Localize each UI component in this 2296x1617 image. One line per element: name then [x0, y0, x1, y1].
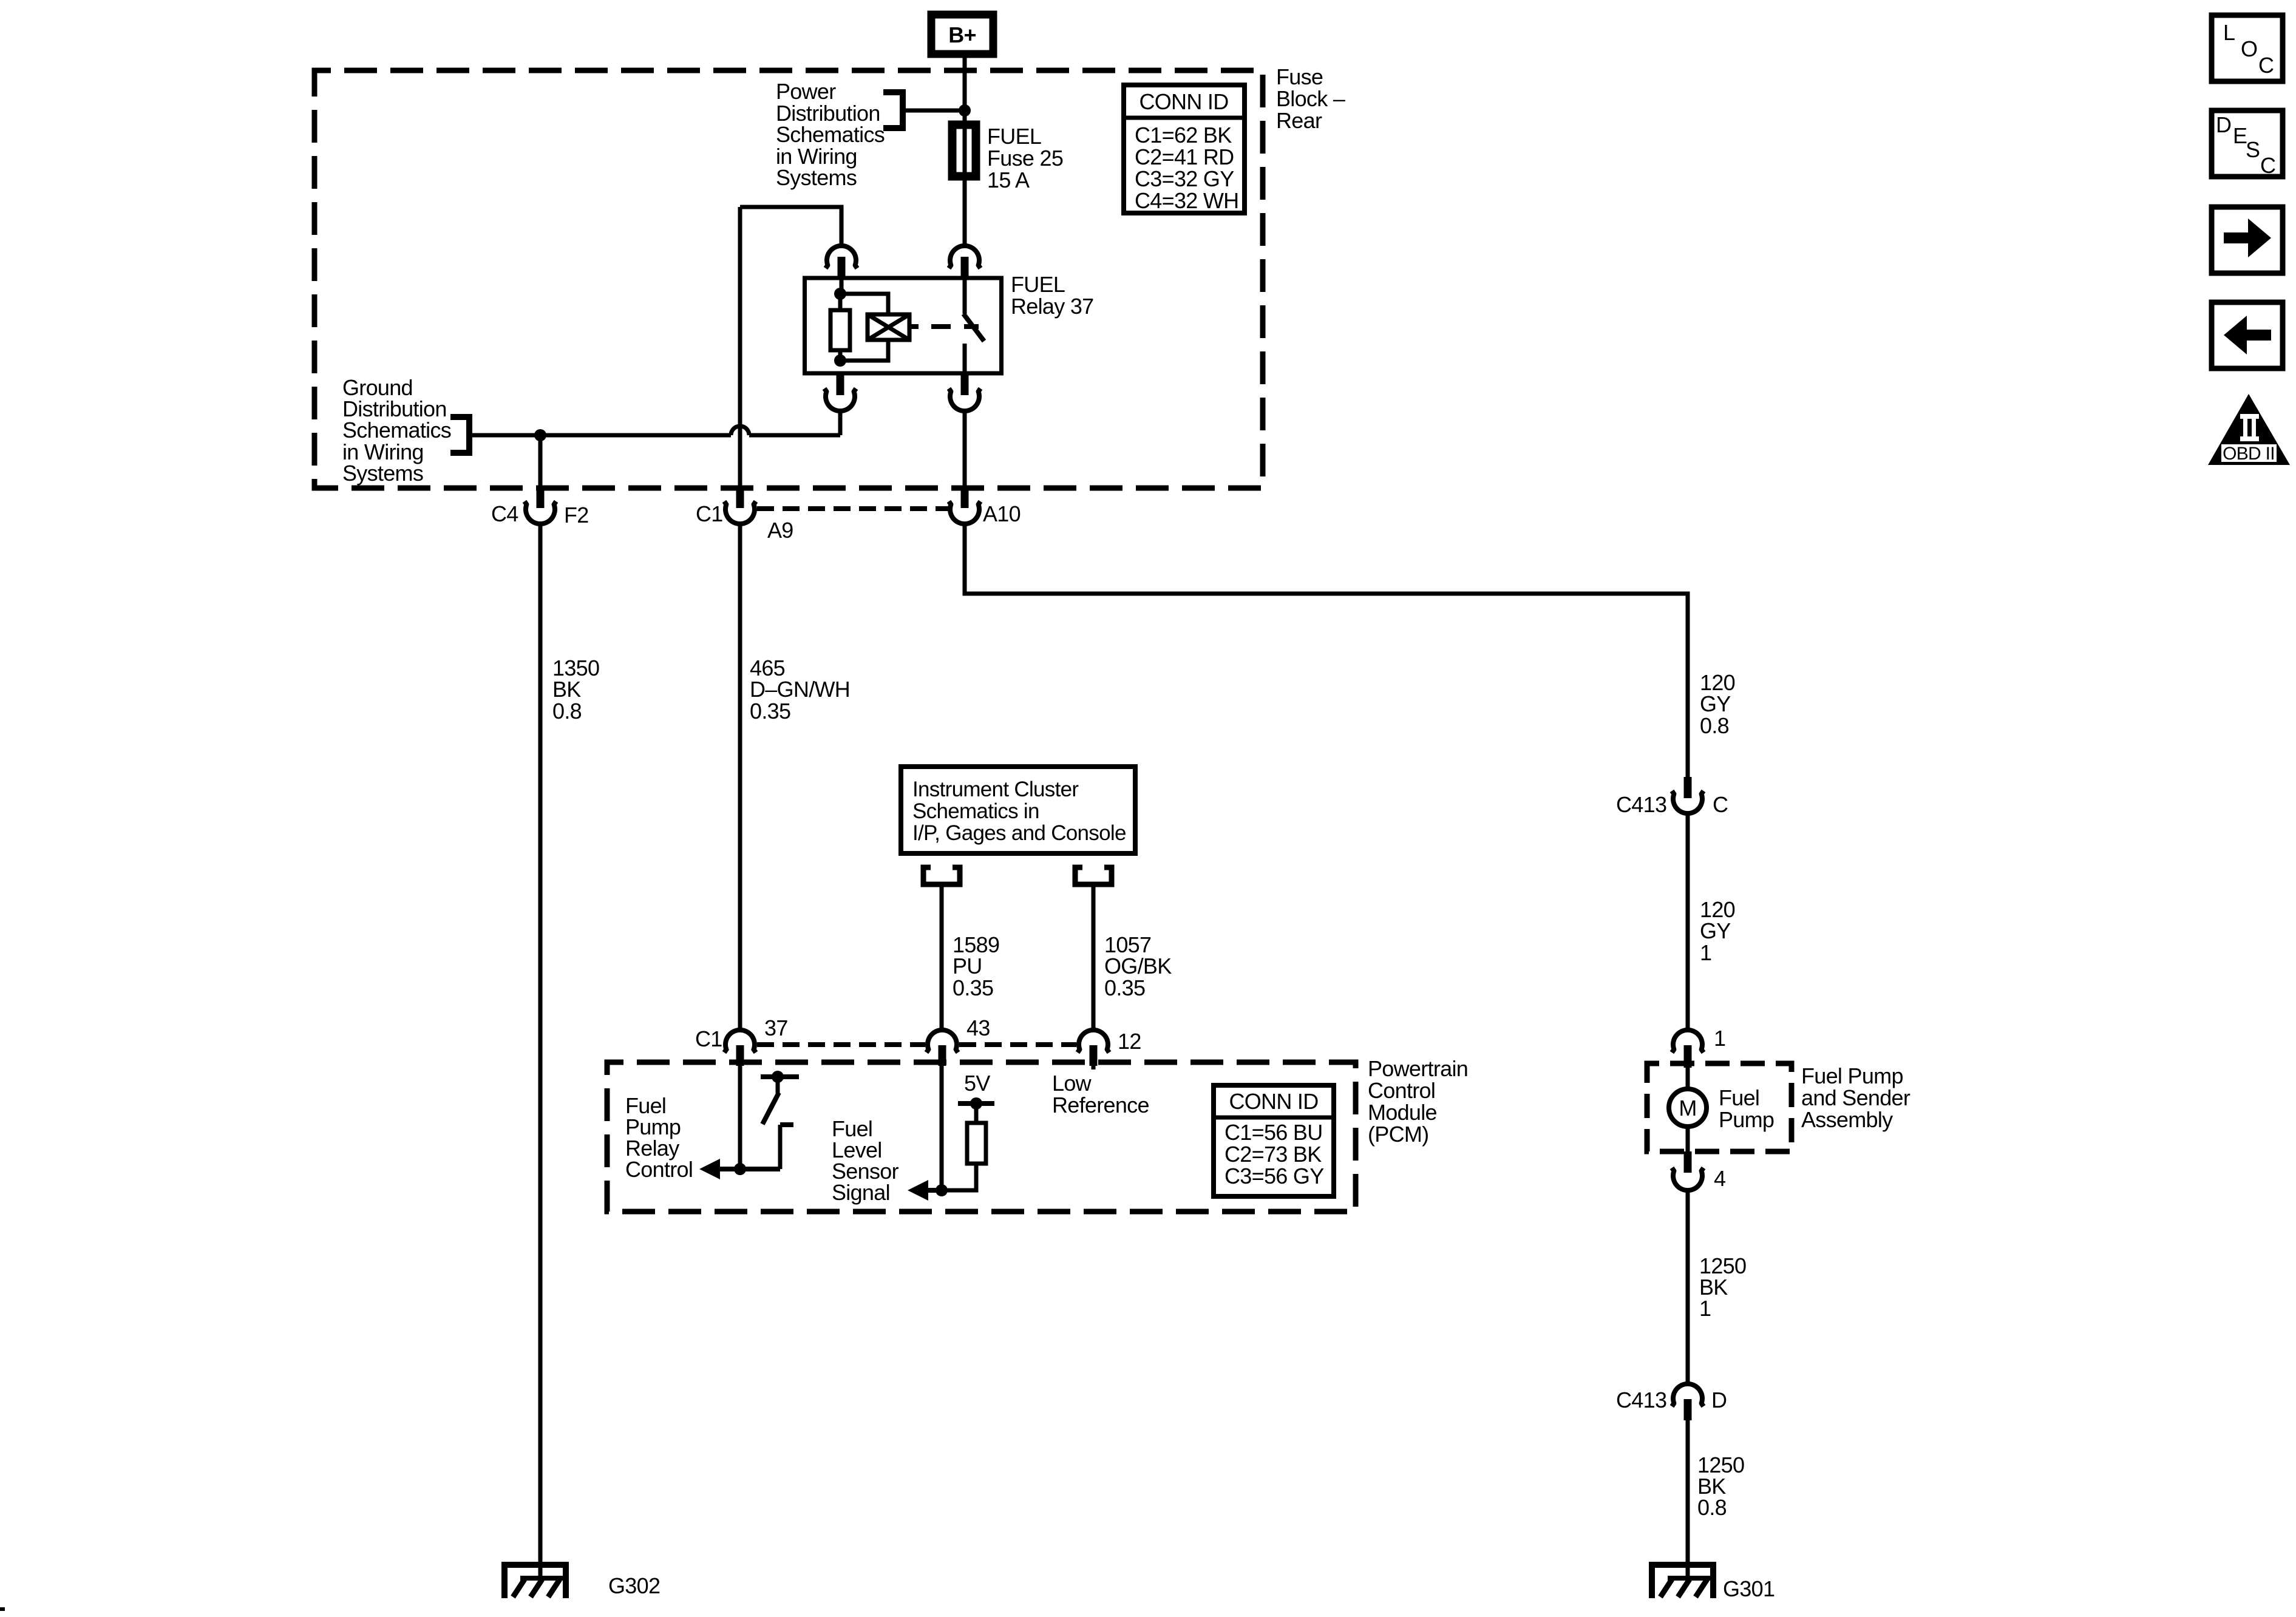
svg-text:Signal: Signal	[832, 1180, 890, 1205]
svg-text:C: C	[1713, 792, 1728, 817]
svg-text:Control: Control	[1368, 1078, 1435, 1103]
svg-text:43: 43	[966, 1015, 990, 1040]
pin stub pump 1	[1684, 1045, 1692, 1068]
svg-text:Schematics: Schematics	[342, 418, 451, 442]
svg-text:Schematics: Schematics	[776, 122, 885, 147]
relay coil (box with X)	[868, 314, 909, 340]
svg-text:GY: GY	[1700, 918, 1731, 943]
junction node pin 43 output	[936, 1184, 948, 1196]
fuel pump motor M	[1669, 1089, 1707, 1127]
wire relay 85 down	[838, 410, 843, 435]
wire label 120 GY 1	[1700, 897, 1735, 965]
svg-text:(PCM): (PCM)	[1368, 1122, 1428, 1147]
svg-text:G301: G301	[1723, 1576, 1775, 1601]
wire 465 drop	[738, 207, 742, 487]
pin stub PCM 37	[736, 1045, 744, 1066]
svg-text:Pump: Pump	[1719, 1107, 1774, 1132]
svg-text:OG/BK: OG/BK	[1104, 954, 1172, 978]
svg-text:0.35: 0.35	[953, 975, 993, 1000]
junction node at B+ feed	[959, 104, 971, 117]
label FUEL Relay 37	[1011, 272, 1093, 319]
svg-text:Assembly: Assembly	[1801, 1107, 1893, 1132]
label Fuel Pump and Sender Assembly	[1801, 1063, 1911, 1132]
wire bracket to B+ feed	[903, 109, 965, 113]
connector hook instrument cluster right	[1075, 867, 1112, 884]
wire 1057 OG/BK drop	[1092, 884, 1096, 1031]
icon left arrow box	[2212, 302, 2283, 368]
svg-text:B+: B+	[948, 22, 976, 47]
resistor in relay	[830, 310, 850, 350]
wire label 120 GY 0.8	[1700, 670, 1735, 738]
svg-text:Rear: Rear	[1276, 108, 1322, 133]
svg-text:Low: Low	[1052, 1071, 1092, 1096]
connector cap C413 D	[1672, 1384, 1703, 1406]
fuel pump and sender dashed box	[1647, 1063, 1792, 1151]
driver switch lower tick	[780, 1122, 793, 1127]
svg-text:BK: BK	[552, 677, 581, 702]
svg-text:15 A: 15 A	[987, 168, 1030, 192]
junction node ground wire	[534, 429, 546, 441]
driver switch lower lead	[778, 1125, 783, 1169]
svg-text:CONN ID: CONN ID	[1139, 89, 1228, 114]
svg-text:Powertrain: Powertrain	[1368, 1056, 1468, 1081]
callout Ground Distribution Schematics in Wiring Systems	[342, 375, 451, 486]
wire fuse to relay pin 30	[963, 178, 967, 245]
icon DESC box	[2212, 110, 2283, 178]
svg-text:C413: C413	[1616, 1388, 1666, 1412]
wire label 1250 BK 0.8	[1697, 1453, 1744, 1520]
wire 1250 BK 1	[1686, 1190, 1690, 1385]
svg-text:CONN ID: CONN ID	[1229, 1089, 1318, 1114]
junction node driver bar	[772, 1071, 784, 1083]
relay switch lower lead pin 87	[963, 344, 967, 373]
wire 1589 PU drop	[940, 884, 944, 1031]
connector cap PCM pin 43	[926, 1030, 958, 1053]
pin stub pump 4	[1684, 1151, 1692, 1173]
junction node relay bottom	[834, 354, 846, 367]
wire B+ to fuse	[963, 58, 967, 123]
wire A10 drop	[963, 410, 967, 487]
svg-text:Fuel: Fuel	[1719, 1085, 1759, 1110]
svg-text:and Sender: and Sender	[1801, 1085, 1911, 1110]
bracket for power distribution callout	[883, 92, 903, 128]
ground G302	[504, 1565, 568, 1598]
svg-text:C: C	[2258, 53, 2274, 78]
actuator dashed link	[931, 324, 951, 329]
svg-text:I/P, Gages and Console: I/P, Gages and Console	[912, 821, 1126, 845]
wire PCM pin 43 internal	[940, 1066, 944, 1190]
wire 5V to resistor	[974, 1103, 979, 1123]
svg-text:C3=56 GY: C3=56 GY	[1224, 1164, 1324, 1188]
svg-text:Block –: Block –	[1276, 86, 1345, 111]
svg-text:Systems: Systems	[342, 461, 423, 486]
connector cup pump pin 4	[1672, 1168, 1703, 1190]
icon LOC box	[2212, 15, 2283, 81]
wire pin 86 top link	[740, 207, 841, 245]
wire ground bracket to junction	[469, 433, 731, 438]
svg-text:Instrument Cluster: Instrument Cluster	[912, 778, 1079, 801]
label FUEL Fuse 25 15 A	[987, 124, 1063, 192]
wire 120 GY 1	[1686, 813, 1690, 1031]
connector cap PCM pin 12	[1078, 1030, 1109, 1053]
pin stub PCM 12	[1090, 1045, 1098, 1066]
label Powertrain Control Module (PCM)	[1368, 1056, 1468, 1147]
wire link to relay coil	[840, 294, 888, 314]
svg-text:PU: PU	[953, 954, 982, 978]
svg-text:C1: C1	[696, 501, 723, 526]
connector boundary dashed line pins 43-12	[959, 1042, 1076, 1047]
svg-text:C3=32 GY: C3=32 GY	[1135, 166, 1234, 191]
svg-text:37: 37	[764, 1015, 788, 1040]
svg-text:Fuse 25: Fuse 25	[987, 146, 1063, 171]
connector hook instrument cluster left	[923, 867, 960, 884]
pin stub C413 C	[1684, 777, 1692, 798]
resistor pull-up in PCM	[967, 1123, 986, 1164]
svg-text:C: C	[2260, 153, 2275, 178]
pin stub relay 30	[961, 257, 969, 279]
svg-text:0.8: 0.8	[1700, 713, 1729, 738]
connector boundary dashed line A9 to A10	[757, 506, 949, 511]
svg-text:Power: Power	[776, 79, 836, 104]
svg-text:Fuse: Fuse	[1276, 64, 1323, 89]
svg-text:Reference: Reference	[1052, 1093, 1149, 1117]
connector cap PCM pin 37	[724, 1030, 756, 1053]
svg-text:D: D	[2216, 112, 2231, 137]
svg-text:F2: F2	[564, 503, 589, 527]
relay FUEL Relay 37 box	[805, 278, 1002, 373]
wire 1250 BK 0.8	[1686, 1420, 1690, 1565]
connector cup A10	[949, 501, 980, 524]
wire hop to relay pin 85	[749, 433, 840, 438]
svg-text:0.8: 0.8	[1697, 1495, 1727, 1520]
svg-text:D: D	[1711, 1388, 1727, 1412]
PCM dashed box	[607, 1062, 1356, 1212]
wire label 1250 BK 1	[1699, 1253, 1746, 1321]
svg-text:A10: A10	[983, 501, 1021, 526]
wire pump feed inside box	[1686, 1068, 1690, 1087]
svg-text:C1=62 BK: C1=62 BK	[1135, 123, 1232, 147]
label Instrument Cluster Schematics	[912, 778, 1126, 845]
wire resistor to signal line	[942, 1164, 976, 1190]
wire relay control output	[716, 1167, 780, 1171]
wire coil bottom link	[840, 340, 888, 361]
svg-text:Schematics in: Schematics in	[912, 799, 1039, 823]
svg-text:12: 12	[1118, 1029, 1141, 1054]
svg-text:O: O	[2241, 36, 2257, 61]
pin stub relay 86	[838, 257, 846, 279]
conn id table PCM	[1214, 1085, 1334, 1196]
svg-text:Relay 37: Relay 37	[1011, 294, 1093, 319]
wire 1350 BK down to G302	[538, 523, 543, 1565]
connector cap relay pin 86	[826, 246, 857, 268]
ground G301	[1652, 1565, 1715, 1598]
svg-text:M: M	[1679, 1096, 1696, 1120]
svg-text:Systems: Systems	[776, 165, 857, 190]
label Fuse Block - Rear	[1276, 64, 1345, 133]
svg-text:C4=32 WH: C4=32 WH	[1135, 188, 1238, 213]
pin stub C413 D	[1684, 1399, 1692, 1420]
pin stub C1 A9	[736, 486, 744, 508]
junction node 5V	[970, 1097, 982, 1110]
junction node pin 37 output	[734, 1163, 746, 1175]
driver switch upper stub	[776, 1077, 780, 1093]
svg-text:G302: G302	[608, 1573, 660, 1598]
wire PCM pin 37 internal	[738, 1066, 742, 1169]
arrow relay control	[699, 1159, 720, 1179]
svg-text:Fuel Pump: Fuel Pump	[1801, 1063, 1903, 1088]
svg-text:GY: GY	[1700, 691, 1731, 716]
label Low Reference	[1052, 1071, 1149, 1117]
svg-text:1: 1	[1700, 940, 1711, 965]
connector cup C4 F2	[525, 501, 556, 524]
svg-text:E: E	[2233, 123, 2247, 148]
connector cap relay pin 30	[949, 246, 980, 268]
svg-text:OBD II: OBD II	[2223, 444, 2275, 464]
svg-text:D–GN/WH: D–GN/WH	[750, 677, 850, 702]
arrow level sensor signal	[908, 1180, 928, 1201]
icon right arrow box	[2212, 207, 2283, 273]
relay switch pin 30 lead	[963, 278, 967, 314]
svg-text:Control: Control	[625, 1157, 693, 1182]
svg-text:C1: C1	[695, 1026, 722, 1051]
svg-text:Module: Module	[1368, 1100, 1437, 1125]
connector cup relay pin 85	[824, 388, 856, 411]
wire label 1057 OG/BK 0.35	[1104, 932, 1172, 1000]
svg-text:4: 4	[1714, 1166, 1725, 1191]
svg-text:1: 1	[1714, 1026, 1725, 1051]
wire label 1589 PU 0.35	[953, 932, 999, 1000]
connector cup C413 C	[1672, 791, 1703, 813]
B+ battery terminal	[931, 15, 993, 54]
wire PCM pin 12 internal	[1092, 1066, 1096, 1070]
driver switch fixed bar	[761, 1074, 799, 1079]
icon OBD II triangle	[2208, 394, 2290, 465]
wire label 465 D-GN/WH 0.35	[750, 656, 850, 724]
driver switch blade	[763, 1093, 779, 1124]
label Fuel Pump Relay Control	[625, 1093, 693, 1182]
wire resistor bottom	[838, 350, 843, 361]
wire C4 drop	[538, 435, 543, 487]
coil actuator stub	[909, 324, 919, 329]
relay switch blade	[963, 314, 984, 341]
wire 465 down to PCM pin 37	[738, 523, 742, 1031]
connector cup C1 A9	[724, 501, 756, 524]
junction node relay top	[834, 288, 846, 300]
relay coil feed wire pin 86	[840, 278, 844, 294]
svg-text:1: 1	[1699, 1296, 1711, 1321]
connector boundary dashed line pins 37-43	[757, 1042, 925, 1047]
svg-text:C413: C413	[1616, 792, 1666, 817]
svg-text:FUEL: FUEL	[1011, 272, 1065, 297]
wire hop over 465 wire	[731, 426, 749, 435]
bracket for ground distribution callout	[450, 417, 469, 453]
svg-text:C2=41 RD: C2=41 RD	[1135, 144, 1234, 169]
svg-text:A9: A9	[767, 518, 793, 543]
fuse block dashed box	[314, 70, 1263, 488]
conn id table fuse block	[1124, 85, 1245, 213]
wire A10 to fuel pump feed	[965, 523, 1688, 777]
fuse FUEL Fuse 25 15A	[950, 123, 978, 178]
label Fuel Pump inside box	[1719, 1085, 1774, 1132]
connector cap fuel pump pin 1	[1672, 1030, 1703, 1053]
svg-text:C4: C4	[491, 501, 518, 526]
pin stub A10	[961, 486, 969, 508]
connector cup relay pin 87	[949, 388, 980, 411]
wire level sensor signal	[924, 1188, 942, 1193]
wire label 1350 BK 0.8	[552, 656, 599, 724]
svg-text:5V: 5V	[964, 1071, 990, 1096]
wire pump to pin 4	[1686, 1127, 1690, 1151]
5V supply bar	[958, 1101, 994, 1106]
pin stub PCM 43	[939, 1045, 946, 1066]
pin stub relay 85	[837, 373, 844, 395]
pin stub C4	[537, 486, 545, 508]
svg-text:0.8: 0.8	[552, 699, 582, 724]
page artifact mark bottom-left	[0, 1607, 5, 1611]
svg-text:C1=56 BU: C1=56 BU	[1224, 1120, 1323, 1145]
svg-text:C2=73 BK: C2=73 BK	[1224, 1142, 1322, 1167]
svg-text:S: S	[2246, 137, 2260, 162]
relay switch fixed contact tick	[964, 324, 979, 329]
svg-text:FUEL: FUEL	[987, 124, 1041, 149]
svg-text:0.35: 0.35	[750, 699, 790, 724]
label Fuel Level Sensor Signal	[832, 1116, 899, 1205]
svg-text:L: L	[2223, 20, 2235, 45]
svg-text:0.35: 0.35	[1104, 975, 1145, 1000]
instrument cluster box	[901, 767, 1135, 853]
callout Power Distribution Schematics in Wiring Systems	[776, 79, 885, 190]
pin stub relay 87	[961, 373, 969, 395]
